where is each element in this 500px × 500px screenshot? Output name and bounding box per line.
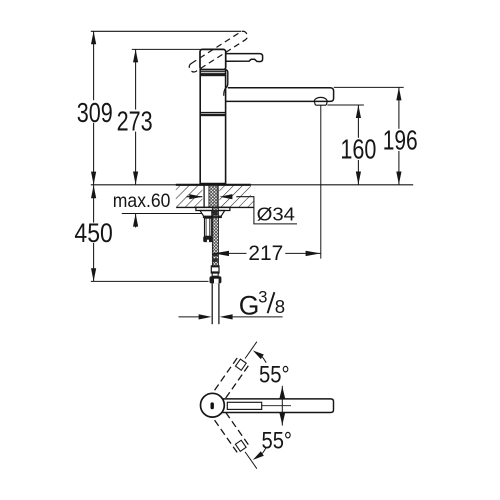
dimension 196 xyxy=(383,87,418,184)
flexible braided hose xyxy=(212,208,218,266)
countertop hatched section left of shank xyxy=(176,186,203,208)
hose crimp sleeve xyxy=(211,266,219,273)
arc arrow to lower dashed line xyxy=(253,448,266,460)
top view base circle xyxy=(201,393,225,417)
top view spout bar xyxy=(222,399,333,413)
countertop hatched section right of shank xyxy=(219,186,254,208)
dimension 217 xyxy=(214,242,321,265)
faucet body column xyxy=(200,70,226,185)
arrow max.60 pointing up xyxy=(133,214,138,228)
stud end nut xyxy=(203,236,213,242)
threaded shank through counter xyxy=(204,185,218,207)
hose end hex nut xyxy=(210,276,222,283)
svg-text:max.60: max.60 xyxy=(113,190,171,212)
countertop top surface line xyxy=(91,184,413,186)
mounting nut xyxy=(200,211,225,219)
label diameter Ø34 with stepped leader xyxy=(236,197,297,225)
spout base collar xyxy=(226,70,228,88)
spout-body fillet seam xyxy=(224,88,226,96)
extension line spout outlet center (217) xyxy=(320,105,322,258)
swivel range double arrow xyxy=(279,386,285,426)
svg-text:217: 217 xyxy=(248,242,283,265)
extension line head top (273) xyxy=(132,48,201,50)
aerator outlet at spout tip xyxy=(314,97,328,105)
mounting washer flange xyxy=(196,207,230,210)
extension line spout top (196) xyxy=(334,86,404,88)
countertop bottom surface line xyxy=(176,206,254,208)
label 55 degrees upper xyxy=(259,362,290,389)
lever handle raised position (dashed) xyxy=(188,30,249,74)
faucet head (cartridge housing) xyxy=(200,49,226,69)
top view centerline stub xyxy=(262,405,291,407)
extension line mounting depth (max.60) xyxy=(122,213,202,215)
extension line top of raised lever (309) xyxy=(91,30,241,32)
lever handle (horizontal position) xyxy=(226,54,263,62)
top view inner sleeve xyxy=(227,402,261,409)
mounting stud xyxy=(205,218,212,236)
dashed spout position lower 55 xyxy=(215,412,263,472)
arc arrow to upper dashed line xyxy=(253,350,266,362)
collar line below head xyxy=(200,71,225,73)
dimension 309 xyxy=(77,31,113,184)
svg-text:3: 3 xyxy=(258,289,267,307)
extension line aerator bottom (160) xyxy=(327,104,364,106)
svg-text:450: 450 xyxy=(74,218,112,248)
label 55 degrees lower xyxy=(262,427,293,454)
top view center slot xyxy=(211,402,214,409)
svg-text:196: 196 xyxy=(383,125,418,156)
label max.60 xyxy=(113,190,171,212)
dashed spout position upper 55 xyxy=(215,338,263,398)
svg-text:55°: 55° xyxy=(259,362,290,389)
spout arm xyxy=(226,88,334,102)
dimension 450 xyxy=(74,185,112,281)
svg-text:G: G xyxy=(239,291,260,321)
hose neck xyxy=(212,273,218,276)
svg-text:55°: 55° xyxy=(262,427,293,454)
svg-text:273: 273 xyxy=(117,105,153,136)
extension line hose end (450 bottom) xyxy=(91,280,209,282)
svg-text:8: 8 xyxy=(275,296,285,317)
arrows hole diameter Ø34 xyxy=(186,194,232,199)
label G 3/8 xyxy=(239,289,285,321)
dimension 160 xyxy=(340,105,376,185)
dimension 273 xyxy=(117,49,153,184)
dimension G 3/8 xyxy=(179,314,283,319)
connection tube G3/8 xyxy=(212,283,219,324)
dark ring between head and body xyxy=(200,73,226,76)
svg-text:160: 160 xyxy=(340,134,376,165)
svg-text:309: 309 xyxy=(77,97,113,128)
svg-text:Ø34: Ø34 xyxy=(257,204,295,224)
body mid joint ring xyxy=(200,112,225,116)
